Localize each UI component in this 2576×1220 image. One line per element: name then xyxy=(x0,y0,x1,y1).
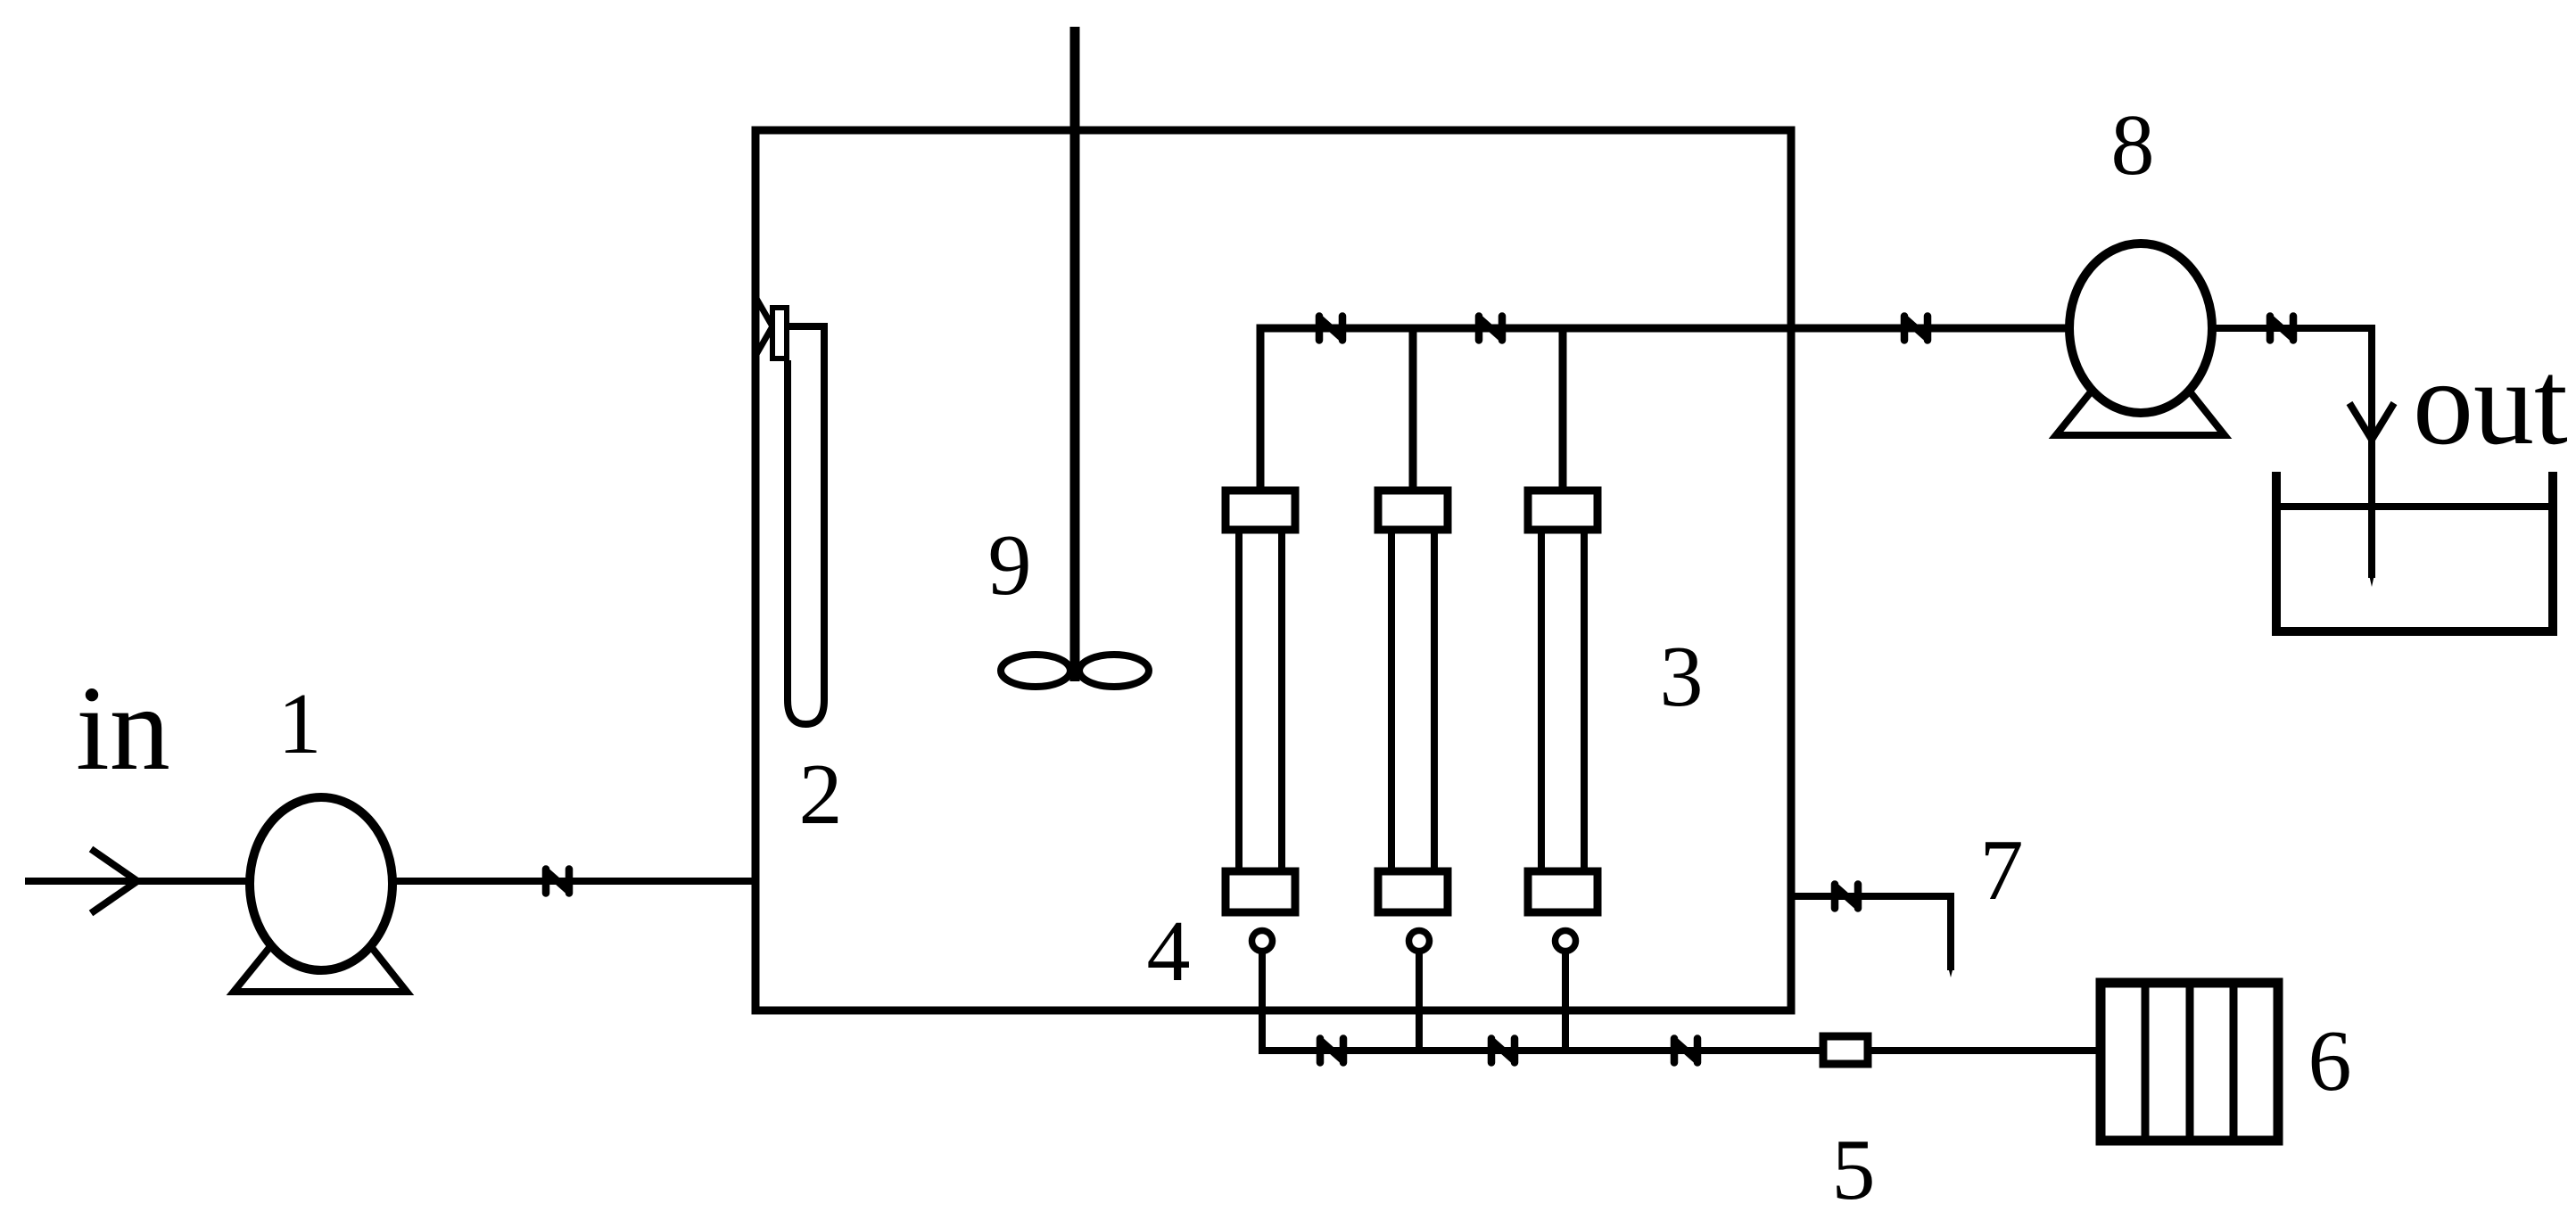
svg-text:5: 5 xyxy=(1832,1122,1876,1218)
stirrer 9 propeller right blade xyxy=(1079,655,1149,687)
svg-text:out: out xyxy=(2413,336,2568,470)
wire: module 3 air drop line xyxy=(1562,952,1569,1051)
pump 1 (feed pump) xyxy=(234,797,407,992)
wire: module 1 riser and top permeate manifold to pump 8 xyxy=(1260,328,2074,492)
svg-text:7: 7 xyxy=(1980,822,2024,919)
stirrer 9 shaft xyxy=(1070,27,1080,681)
svg-text:8: 8 xyxy=(2111,97,2155,194)
svg-text:in: in xyxy=(76,662,170,795)
membrane module 4 #2 top cap xyxy=(1378,490,1448,530)
wire: module 3 riser xyxy=(1559,328,1567,492)
module 3 aerator port xyxy=(1556,931,1576,952)
membrane module 4 #3 bottom cap xyxy=(1528,871,1598,912)
out pipe tip xyxy=(2368,571,2375,587)
pump 8 (suction pump) xyxy=(2056,243,2225,435)
blower 6 xyxy=(2101,983,2278,1141)
svg-text:9: 9 xyxy=(988,517,1032,614)
drain pipe tip xyxy=(1947,963,1954,977)
valve on top manifold #2 xyxy=(1479,317,1502,341)
valve on bottom manifold #1 xyxy=(1320,1039,1343,1063)
wire: inlet line into pump 1 xyxy=(25,878,254,885)
valve on bottom manifold #2 xyxy=(1491,1039,1515,1063)
svg-text:3: 3 xyxy=(1660,629,1704,725)
valve on bottom manifold #3 xyxy=(1674,1039,1697,1063)
thermometer 2 fitting xyxy=(772,308,787,359)
out collection tank xyxy=(2276,472,2553,631)
membrane module 4 #1 bottom cap xyxy=(1226,871,1295,912)
svg-text:4: 4 xyxy=(1147,903,1191,1000)
membrane module 4 #1 top cap xyxy=(1226,490,1295,530)
out flow arrow xyxy=(2349,403,2394,440)
svg-text:2: 2 xyxy=(799,746,843,843)
valve after pump 8 xyxy=(2270,317,2293,341)
wire: module 2 air drop line xyxy=(1416,952,1423,1051)
wire: pump 8 outlet to out tank xyxy=(2212,328,2372,578)
wire: drain line to 7 xyxy=(1791,896,1951,970)
wire: pump 1 outlet to tank xyxy=(392,878,755,885)
membrane module 4 #1 tube walls xyxy=(1235,530,1243,871)
valve on top manifold #3 before pump 8 xyxy=(1904,317,1928,341)
membrane module 4 #3 top cap xyxy=(1528,490,1598,530)
svg-text:6: 6 xyxy=(2308,1013,2352,1109)
module 1 aerator port xyxy=(1252,931,1273,952)
module 2 aerator port xyxy=(1409,931,1430,952)
out tank water level xyxy=(2276,503,2553,510)
wire: module 1 air drop line to bottom manifold xyxy=(1262,952,2105,1051)
valve on top manifold #1 xyxy=(1319,317,1342,341)
flowmeter 5 xyxy=(1823,1036,1868,1064)
tank 3 (bioreactor vessel) xyxy=(755,130,1791,1010)
thermometer 2 tube xyxy=(781,326,824,724)
membrane module 4 #2 tube walls xyxy=(1388,530,1395,871)
membrane module 4 #3 tube walls xyxy=(1538,530,1545,871)
svg-text:1: 1 xyxy=(278,676,322,772)
valve on pump1 outlet xyxy=(546,870,569,894)
inlet flow arrow xyxy=(91,849,137,913)
thermometer 2 attachment arrow xyxy=(755,297,772,356)
valve on drain line 7 xyxy=(1835,885,1858,909)
wire: module 2 riser xyxy=(1409,328,1417,492)
stirrer 9 propeller left blade xyxy=(1001,655,1070,687)
membrane module 4 #2 bottom cap xyxy=(1378,871,1448,912)
